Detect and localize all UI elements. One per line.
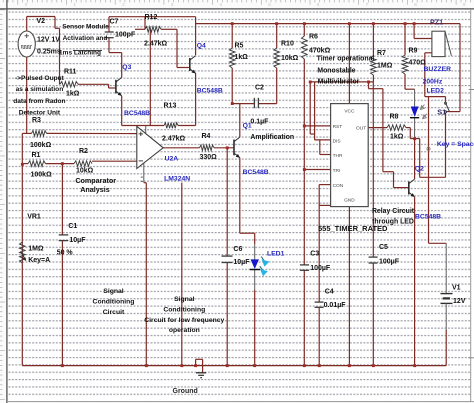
svg-text:BC548B: BC548B bbox=[124, 110, 150, 117]
svg-text:R2: R2 bbox=[79, 148, 88, 155]
svg-text:10µF: 10µF bbox=[69, 237, 86, 244]
svg-text:LED2: LED2 bbox=[427, 87, 445, 94]
svg-text:C3: C3 bbox=[310, 251, 319, 258]
svg-text:DIS: DIS bbox=[333, 138, 341, 144]
svg-text:VR1: VR1 bbox=[27, 214, 41, 221]
svg-text:Signal: Signal bbox=[174, 296, 195, 303]
svg-text:1MΩ: 1MΩ bbox=[377, 63, 393, 70]
svg-text:Amplification: Amplification bbox=[250, 134, 294, 141]
svg-text:V2: V2 bbox=[37, 18, 46, 25]
svg-text:1kΩ: 1kΩ bbox=[390, 134, 404, 141]
svg-text:12V: 12V bbox=[453, 298, 466, 305]
svg-text:R5: R5 bbox=[235, 43, 244, 50]
svg-text:12V 1V: 12V 1V bbox=[37, 37, 60, 44]
svg-text:U2A: U2A bbox=[165, 155, 179, 162]
svg-text:200Hz: 200Hz bbox=[423, 78, 443, 85]
svg-text:R12: R12 bbox=[145, 14, 158, 21]
svg-text:GND: GND bbox=[344, 198, 355, 204]
svg-text:Relay Circuit: Relay Circuit bbox=[372, 208, 415, 215]
svg-text:->Pulsed Ouput: ->Pulsed Ouput bbox=[15, 75, 65, 82]
svg-text:R9: R9 bbox=[409, 48, 418, 55]
svg-text:10µF: 10µF bbox=[233, 259, 250, 266]
svg-text:100kΩ: 100kΩ bbox=[30, 142, 52, 149]
svg-text:10kΩ: 10kΩ bbox=[76, 168, 94, 175]
svg-text:Q1: Q1 bbox=[243, 122, 252, 129]
svg-text:Key=A: Key=A bbox=[28, 257, 50, 264]
svg-text:Sensor Module: Sensor Module bbox=[62, 24, 109, 31]
svg-text:operation: operation bbox=[169, 327, 200, 334]
svg-text:Analysis: Analysis bbox=[80, 185, 110, 194]
svg-text:Timer operational: Timer operational bbox=[317, 56, 375, 63]
svg-text:Comparator: Comparator bbox=[75, 176, 116, 185]
svg-text:S1: S1 bbox=[437, 108, 446, 117]
svg-text:BC548B: BC548B bbox=[415, 213, 441, 220]
svg-text:Conditioning: Conditioning bbox=[93, 298, 135, 305]
svg-text:100kΩ: 100kΩ bbox=[31, 172, 53, 179]
svg-text:PZ1: PZ1 bbox=[430, 17, 443, 26]
svg-text:R4: R4 bbox=[202, 133, 211, 140]
svg-text:Multivibrator: Multivibrator bbox=[318, 78, 360, 85]
svg-text:R10: R10 bbox=[281, 41, 294, 48]
svg-text:C5: C5 bbox=[379, 244, 388, 251]
svg-text:Q3: Q3 bbox=[122, 64, 131, 71]
svg-text:V1: V1 bbox=[452, 284, 461, 291]
svg-text:0.01µF: 0.01µF bbox=[324, 302, 347, 309]
svg-text:C1: C1 bbox=[68, 223, 77, 230]
svg-text:RST: RST bbox=[333, 124, 343, 130]
svg-text:R7: R7 bbox=[377, 50, 386, 57]
svg-text:OUT: OUT bbox=[356, 126, 366, 132]
svg-text:BUZZER: BUZZER bbox=[424, 66, 452, 73]
svg-text:100µF: 100µF bbox=[310, 265, 331, 272]
svg-text:Q4: Q4 bbox=[197, 43, 206, 50]
svg-text:VCC: VCC bbox=[344, 109, 355, 115]
svg-text:LM324N: LM324N bbox=[164, 175, 190, 182]
svg-text:R1: R1 bbox=[32, 152, 41, 159]
svg-text:330Ω: 330Ω bbox=[200, 154, 218, 161]
svg-text:BC548B: BC548B bbox=[243, 169, 269, 176]
svg-text:C2: C2 bbox=[255, 85, 264, 92]
svg-text:Conditioning: Conditioning bbox=[163, 307, 205, 314]
svg-text:2.47kΩ: 2.47kΩ bbox=[144, 41, 168, 48]
svg-text:TRI: TRI bbox=[333, 168, 341, 174]
svg-text:through LED: through LED bbox=[372, 219, 414, 226]
svg-text:100µF: 100µF bbox=[379, 259, 400, 266]
svg-text:THR: THR bbox=[333, 153, 343, 159]
svg-text:as a simulation: as a simulation bbox=[16, 86, 64, 93]
svg-text:R6: R6 bbox=[309, 34, 318, 41]
svg-text:Circuit: Circuit bbox=[103, 309, 125, 316]
svg-text:R13: R13 bbox=[164, 103, 177, 110]
svg-text:Key = Space: Key = Space bbox=[437, 141, 474, 148]
svg-text:1kΩ: 1kΩ bbox=[66, 91, 80, 98]
svg-text:Circuit for low frequency: Circuit for low frequency bbox=[144, 317, 224, 324]
svg-text:10kΩ: 10kΩ bbox=[281, 55, 299, 62]
svg-text:Activation and: Activation and bbox=[63, 35, 108, 42]
svg-text:R11: R11 bbox=[64, 69, 77, 76]
svg-text:1kΩ: 1kΩ bbox=[235, 54, 249, 61]
svg-text:470kΩ: 470kΩ bbox=[309, 48, 331, 55]
svg-text:Monostable: Monostable bbox=[317, 67, 355, 74]
svg-text:CON: CON bbox=[333, 183, 344, 189]
svg-text:2.47kΩ: 2.47kΩ bbox=[162, 135, 186, 142]
svg-text:LED1: LED1 bbox=[267, 250, 285, 257]
svg-text:0.25ms: 0.25ms bbox=[37, 49, 61, 56]
svg-text:50 %: 50 % bbox=[57, 250, 74, 257]
svg-text:C4: C4 bbox=[325, 289, 334, 296]
svg-text:0.1µF: 0.1µF bbox=[250, 118, 269, 125]
svg-text:BC548B: BC548B bbox=[197, 87, 223, 94]
svg-text:C6: C6 bbox=[233, 246, 242, 253]
svg-text:Q2: Q2 bbox=[415, 166, 424, 173]
svg-text:Signal: Signal bbox=[103, 288, 124, 295]
svg-text:C7: C7 bbox=[110, 19, 119, 26]
svg-text:Ground: Ground bbox=[173, 388, 198, 395]
svg-text:R8: R8 bbox=[390, 114, 399, 121]
svg-text:100pF: 100pF bbox=[115, 32, 136, 39]
svg-text:R3: R3 bbox=[32, 117, 41, 124]
svg-text:data from Radon: data from Radon bbox=[13, 98, 65, 105]
svg-text:1MΩ: 1MΩ bbox=[28, 245, 44, 252]
svg-text:Detector Unit: Detector Unit bbox=[19, 109, 61, 116]
